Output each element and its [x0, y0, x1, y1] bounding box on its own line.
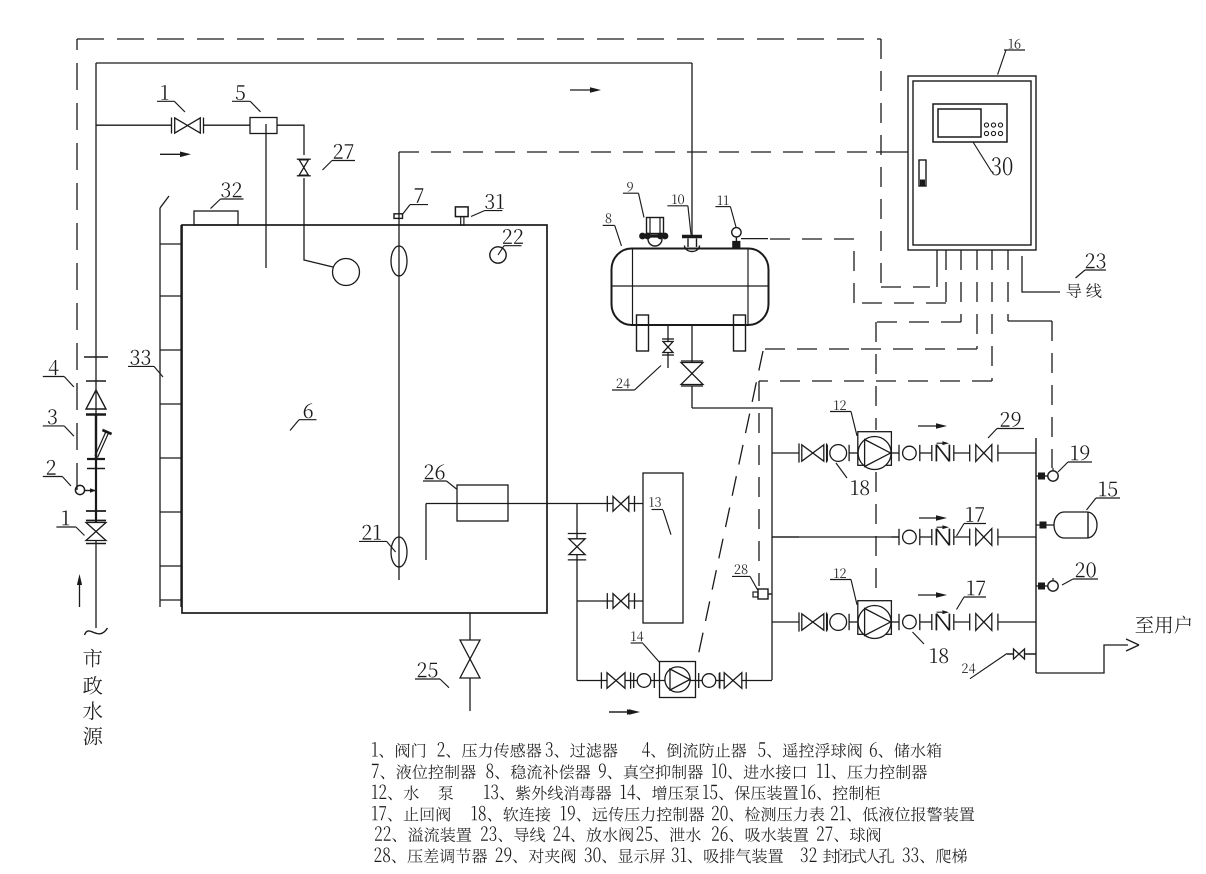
- level float lower low-level alarm 21: [391, 537, 407, 567]
- label 1 top valve: [161, 85, 168, 100]
- label 4 backflow preventer: [49, 360, 59, 375]
- label 32: [221, 182, 241, 197]
- label 17 bottom check valve: [967, 581, 985, 596]
- valve on drop line: [569, 539, 585, 547]
- label 29 wafer valve: [1001, 412, 1021, 427]
- label 31: [485, 194, 504, 209]
- valve 24 manifold drain: [1007, 653, 1036, 655]
- label 33: [130, 350, 150, 365]
- flange bar below check valve: [86, 413, 106, 415]
- gauge 19 remote pressure controller: [1036, 475, 1048, 477]
- float valve 5 body: [250, 118, 277, 134]
- pipe to UV sterilizer top port: [577, 503, 643, 505]
- ladder 33 rails: [159, 208, 161, 607]
- label 5 float valve: [236, 85, 245, 100]
- UV sterilizer 13 body: [643, 473, 683, 623]
- valve small drain: [663, 342, 673, 348]
- label 24 manifold drain: [962, 663, 975, 673]
- flex joint booster inlet: [633, 673, 635, 688]
- label 13: [649, 497, 660, 507]
- inlet connection 10: [682, 235, 702, 238]
- pipe compensator small drain: [667, 324, 669, 368]
- label 28: [735, 564, 748, 574]
- gauge 20 check pressure gauge: [1036, 585, 1048, 587]
- label 2 pressure sensor: [47, 460, 56, 475]
- pressure holding device 15: [1036, 524, 1054, 526]
- label 23 lead wire: [1086, 253, 1106, 268]
- valve booster inlet: [607, 673, 616, 689]
- arrow flow pump line 2: [919, 517, 940, 519]
- label 14: [631, 631, 643, 641]
- valve compensator outlet: [681, 363, 703, 374]
- label 17 middle check valve: [966, 507, 984, 522]
- flange on riser: [84, 356, 108, 358]
- arrow flow pump line 1: [918, 425, 940, 427]
- pipe booster pump line: [577, 680, 772, 682]
- label 30: [992, 157, 1013, 175]
- cabinet 16 outer: [908, 76, 1036, 250]
- arrow flow right drain: [609, 711, 631, 713]
- check valve 4 backflow preventer: [86, 380, 106, 382]
- cabinet door handle: [919, 160, 926, 186]
- label 1 bottom valve: [62, 511, 69, 526]
- text to users: [1136, 616, 1191, 634]
- overflow gauge 22: [490, 247, 506, 263]
- arrow flow right booster: [609, 711, 633, 713]
- vent 31 air inlet-outlet device: [455, 207, 468, 217]
- wire B dashed from cabinet to pressure controller 11: [945, 250, 947, 303]
- flex joint booster outlet: [698, 673, 700, 688]
- valve 27 ball valve: [299, 160, 308, 168]
- pipe outlet to users: [1036, 645, 1128, 673]
- label 3 filter: [48, 409, 57, 424]
- ladder 33 rungs: [160, 243, 181, 245]
- label 6 tank: [304, 403, 313, 418]
- wire G solid from cabinet to lead label 23: [1022, 256, 1060, 292]
- wire dashed control line from pressure sensor 2 up left side: [76, 39, 78, 490]
- label 20: [1076, 562, 1096, 577]
- pipe right manifold: [1035, 438, 1037, 673]
- manhole 32 closed manhole: [194, 211, 238, 225]
- vacuum suppressor 9: [647, 218, 664, 234]
- pipe outlet to pump manifold: [692, 408, 772, 680]
- wire D dashed from cabinet to booster pump 14: [976, 250, 978, 349]
- float ball 21 of valve 5: [333, 259, 360, 286]
- pipe pump line 3 bottom: [772, 621, 799, 623]
- label 18 bottom flex: [930, 648, 948, 663]
- label 10: [672, 194, 684, 204]
- flange bar: [87, 458, 105, 460]
- pipe break tilde: [85, 628, 108, 635]
- label 9: [627, 182, 633, 192]
- valve 1 top gate valve: [175, 118, 188, 133]
- flange pair above valve 1: [86, 510, 106, 512]
- pipe top supply run to compensator: [96, 62, 692, 64]
- pipe pump line 1 top: [772, 452, 799, 454]
- pipe drop to inlet connection 10: [691, 63, 693, 235]
- arrow flow right below valve 1: [160, 153, 184, 155]
- arrow flow right top: [570, 89, 594, 91]
- filter 3 strainer: [95, 414, 97, 459]
- label 22: [503, 229, 523, 244]
- flange single: [87, 468, 105, 470]
- pressure regulator 28: [768, 593, 772, 595]
- arrow flow up municipal: [79, 580, 81, 607]
- level controller 7 head box: [394, 214, 403, 219]
- pipe from valve 27 to float ball: [304, 178, 333, 267]
- pipe from valve 5 to ball valve 27: [277, 125, 304, 155]
- label 12 bottom pump: [834, 568, 846, 578]
- tank 8 left leg: [637, 315, 649, 351]
- label 27 ball valve: [334, 144, 354, 159]
- valve 25 drain valve: [460, 640, 480, 659]
- legend list of numbered components: [372, 742, 425, 758]
- valve 1 lower gate valve: [86, 523, 106, 532]
- label 21: [363, 525, 381, 540]
- wire E dashed from cabinet to pressure regulator 28: [991, 250, 993, 381]
- label 26: [425, 464, 445, 479]
- pipe compensator outlet: [691, 324, 693, 362]
- text lead wire 23: [1067, 283, 1102, 298]
- valve booster outlet: [724, 673, 733, 689]
- suction device 26 box: [457, 485, 508, 521]
- text municipal water source: [83, 649, 102, 668]
- display 30 buttons: [984, 123, 988, 127]
- wire F dashed from cabinet to remote gauge 19: [1007, 250, 1009, 321]
- tank 6 storage tank body: [182, 225, 547, 613]
- wire dashed drop to cabinet wire A: [880, 39, 882, 287]
- junction suction to vertical drop: [576, 504, 578, 681]
- pipe municipal supply riser: [95, 63, 97, 628]
- tank 8 right leg: [734, 315, 746, 351]
- display 30 panel: [933, 104, 1007, 142]
- label 16: [1009, 39, 1021, 49]
- label 25: [418, 662, 438, 677]
- arrow flow pump line 3: [918, 594, 940, 596]
- compensator tank 8 vessel: [612, 249, 769, 326]
- label 19: [1071, 445, 1089, 460]
- pipe pump line 2 middle: [772, 536, 799, 538]
- wire dashed control line along top: [77, 38, 881, 40]
- label 11: [718, 195, 729, 205]
- valve UV top: [613, 496, 621, 511]
- level float upper: [391, 246, 407, 276]
- wire C dashed from cabinet to pumps 12: [960, 250, 962, 322]
- pipe to UV sterilizer bottom port: [577, 600, 643, 602]
- label 24 compensator drain: [617, 378, 630, 388]
- level controller 7 probe line: [398, 152, 400, 580]
- label 7: [415, 188, 424, 203]
- label 8: [606, 213, 612, 223]
- wire A solid from cabinet: [936, 250, 938, 287]
- tank 8 seam lines: [632, 249, 634, 326]
- wire dashed from level controller 7 to cabinet: [399, 151, 876, 153]
- pressure controller 11: [732, 228, 741, 237]
- label 18 top flex: [851, 480, 869, 495]
- label 15: [1099, 482, 1117, 497]
- arrow to users: [1126, 639, 1139, 645]
- valve UV bottom: [613, 594, 621, 609]
- pipe tank drain: [469, 613, 471, 711]
- cabinet 16 inner: [913, 81, 1031, 245]
- pipe branch to float valve: [96, 124, 171, 126]
- pipe from float valve 5 into tank: [265, 124, 267, 268]
- label 12 top pump: [834, 400, 846, 410]
- pressure sensor 2: [75, 485, 84, 494]
- booster pump 14: [660, 662, 696, 698]
- display 30 screen: [938, 109, 981, 137]
- pipe suction line through 26: [426, 503, 577, 505]
